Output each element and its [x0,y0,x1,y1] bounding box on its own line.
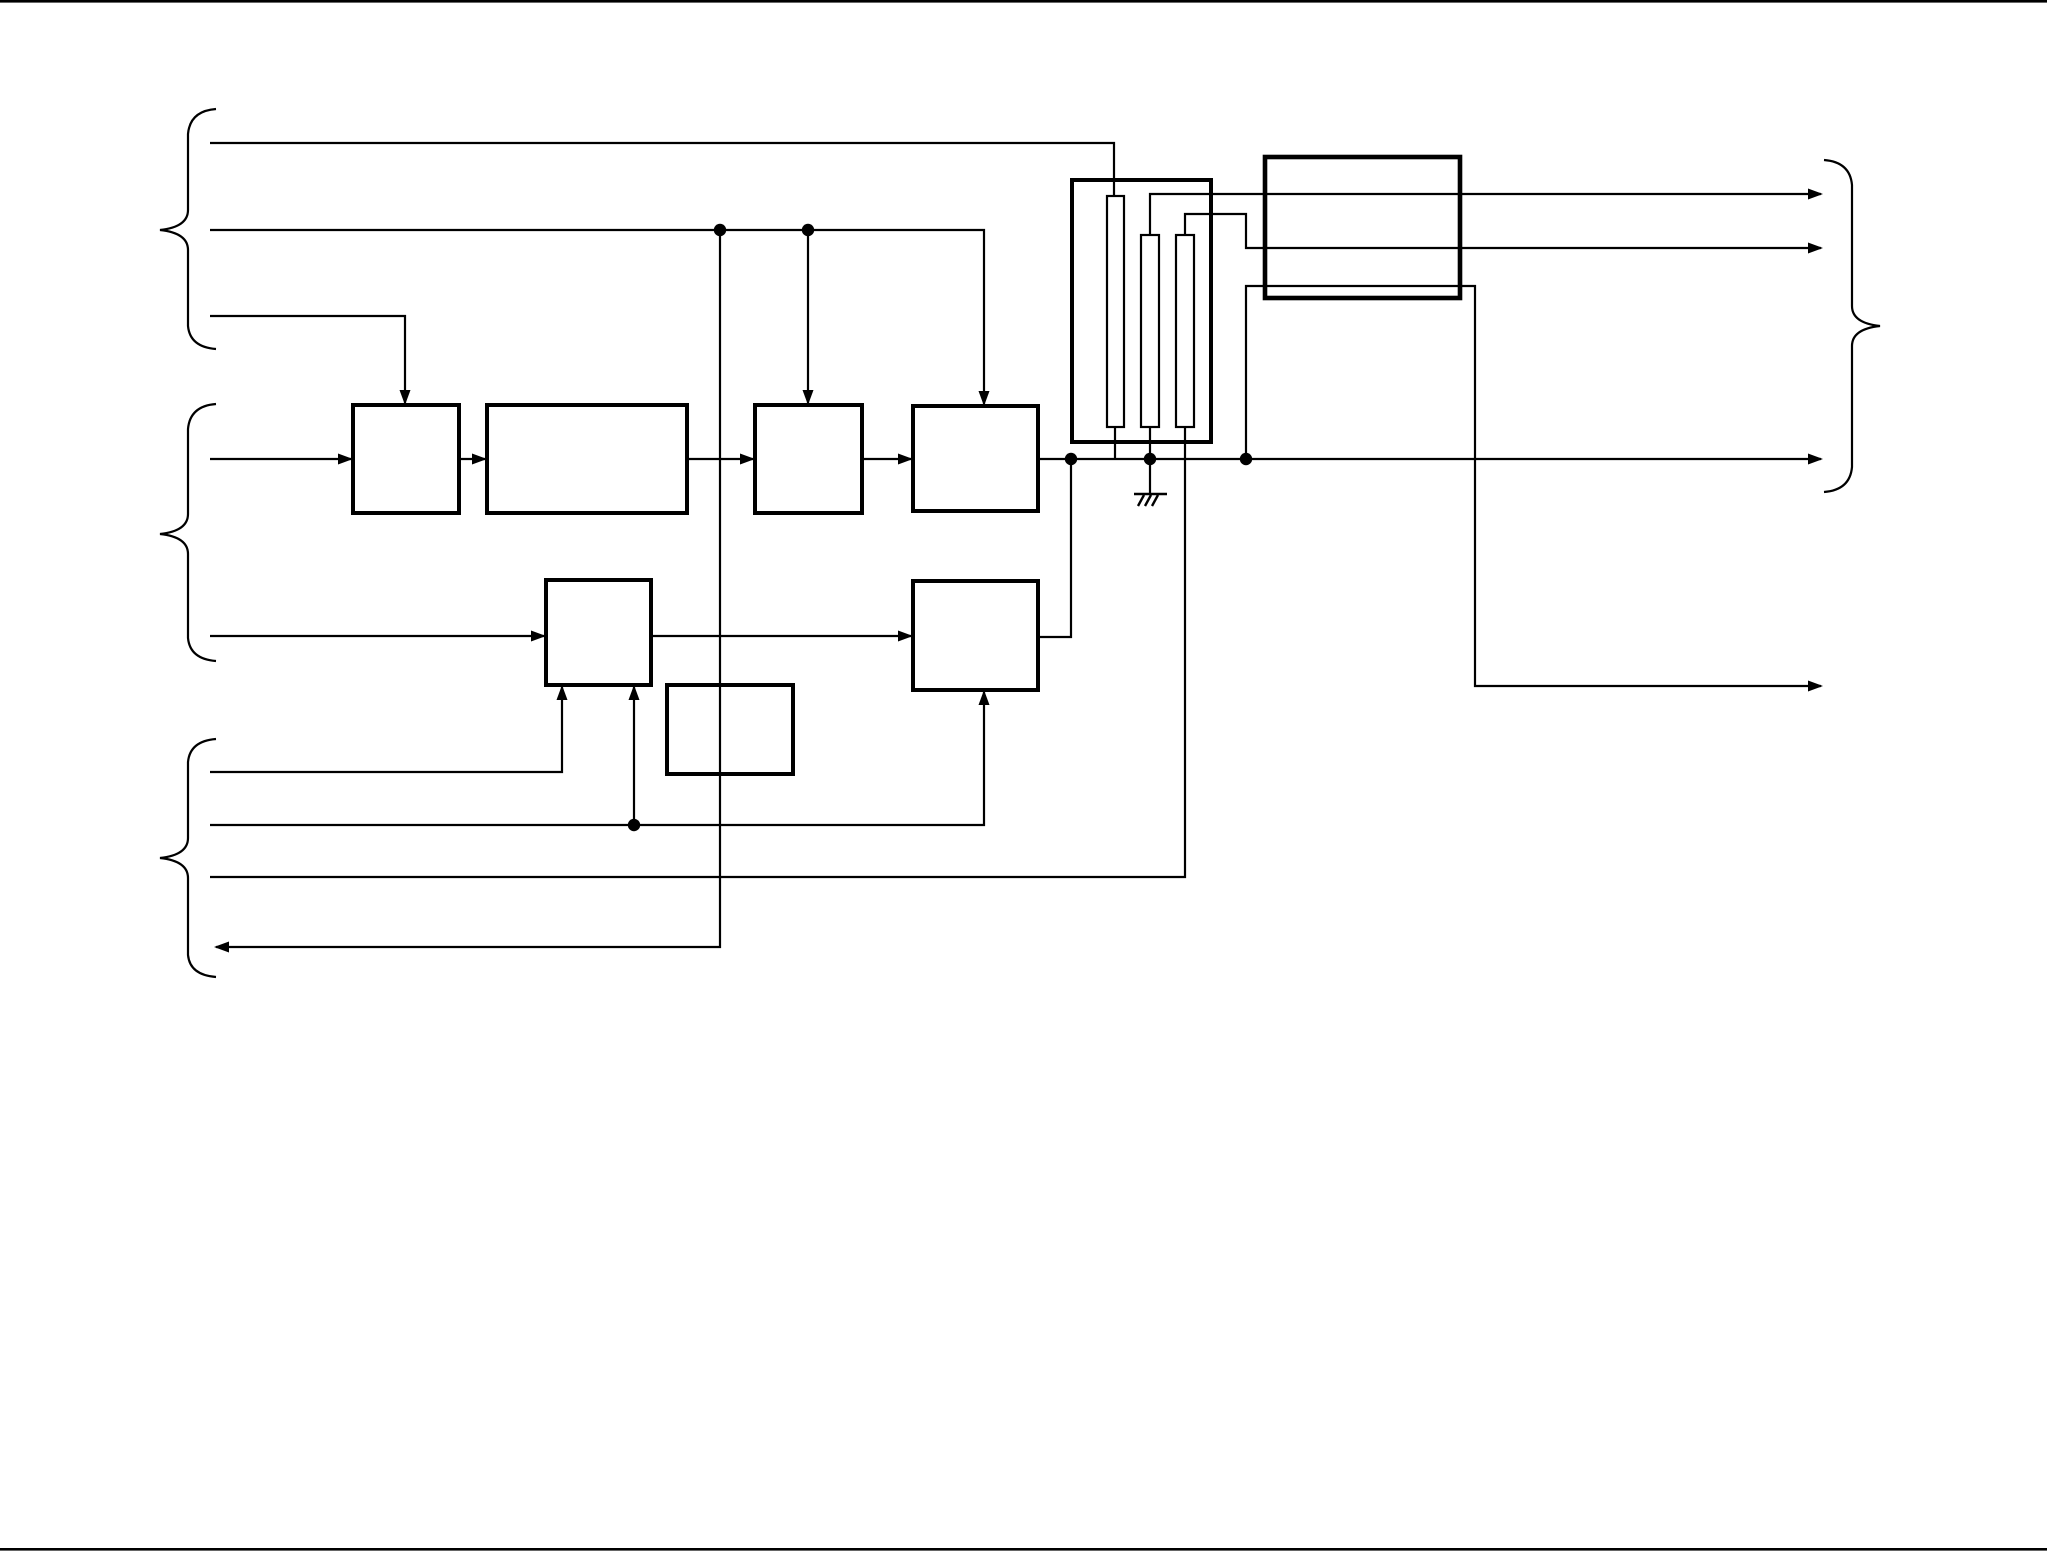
arrowhead into box7 bottom [979,690,990,705]
wire long vertical feedback to left arrow [216,230,720,947]
wire main input to box1 [210,458,351,460]
wire crystal X3 top to output arrow 2 [1185,214,1821,248]
input group brace 2 (left) [160,404,216,661]
wire crystal X2 bottom to ground stub [1149,427,1151,494]
wire input line C to crystal X3 bottom [210,427,1185,877]
ground symbol [1134,494,1167,506]
wire input line 3 to box1 top [210,316,405,403]
block box6 [667,685,793,774]
arrowhead into box4 top [979,391,990,406]
crystal element X1 [1107,196,1124,427]
input group brace 3 (left) [160,739,216,977]
junction dot main line at ground branch [1144,453,1156,465]
arrowhead into box2 left [472,454,487,465]
page bottom border [0,1548,2047,1551]
arrowhead output 4 [1808,681,1823,692]
arrowhead into box3 left [740,454,755,465]
input group brace 1 (left) [160,109,216,349]
arrowhead into box1 top [400,390,411,405]
wire branch lineB to box5 bottom [633,687,635,825]
arrowhead into box7 left [898,631,913,642]
wire input line 5 to box5 [210,635,544,637]
junction dot main line at T1 branch [1240,453,1252,465]
block box4 [913,406,1038,511]
wire main line branch through T1 to output arrow 4 [1246,286,1821,686]
page top border [0,0,2047,3]
wire main output line [1038,458,1821,460]
wire crystal X1 bottom stub [1114,427,1116,459]
wire box2 to box3 [687,458,753,460]
junction dot on line2 at box3 branch [802,224,814,236]
arrowhead into box5 bottom from line A [557,685,568,700]
crystal filter enclosure [1072,180,1211,442]
arrowhead feedback to left [214,942,229,953]
wire box5 to box7 [651,635,911,637]
wire box3 to box4 [862,458,911,460]
block box3 [755,405,862,513]
arrowhead output 1 [1808,189,1823,200]
block box2 [487,405,687,513]
wire crystal X2 top to output arrow 1 [1150,194,1821,235]
junction dot on line2 at feedback vertical [714,224,726,236]
block box5 [546,580,651,685]
arrowhead into box4 left [898,454,913,465]
junction dot main line at box7 return [1065,453,1077,465]
arrowhead into box1 left [338,454,353,465]
junction dot on line B at box5 branch [628,819,640,831]
block box7 [913,581,1038,690]
wire branch line2 to box3 [807,230,809,403]
wire input line 1 to crystal X1 [210,143,1114,196]
block box1 [353,405,459,513]
arrowhead into box5 bottom from line B [629,685,640,700]
crystal element X3 [1176,235,1194,427]
wire box1 to box2 [459,458,485,460]
wire box7 output up to main line [1038,459,1071,637]
crystal element X2 [1141,235,1159,427]
wire input line B bus to box7 bottom [210,692,984,825]
transformer block T1 [1265,157,1460,298]
arrowhead into box5 left [531,631,546,642]
arrowhead into box3 top [803,390,814,405]
arrowhead main output [1808,454,1823,465]
wire input line 2 bus [210,230,984,404]
arrowhead output 2 [1808,243,1823,254]
output group brace (right) [1824,160,1880,492]
wire input line A to box5 bottom [210,687,562,772]
